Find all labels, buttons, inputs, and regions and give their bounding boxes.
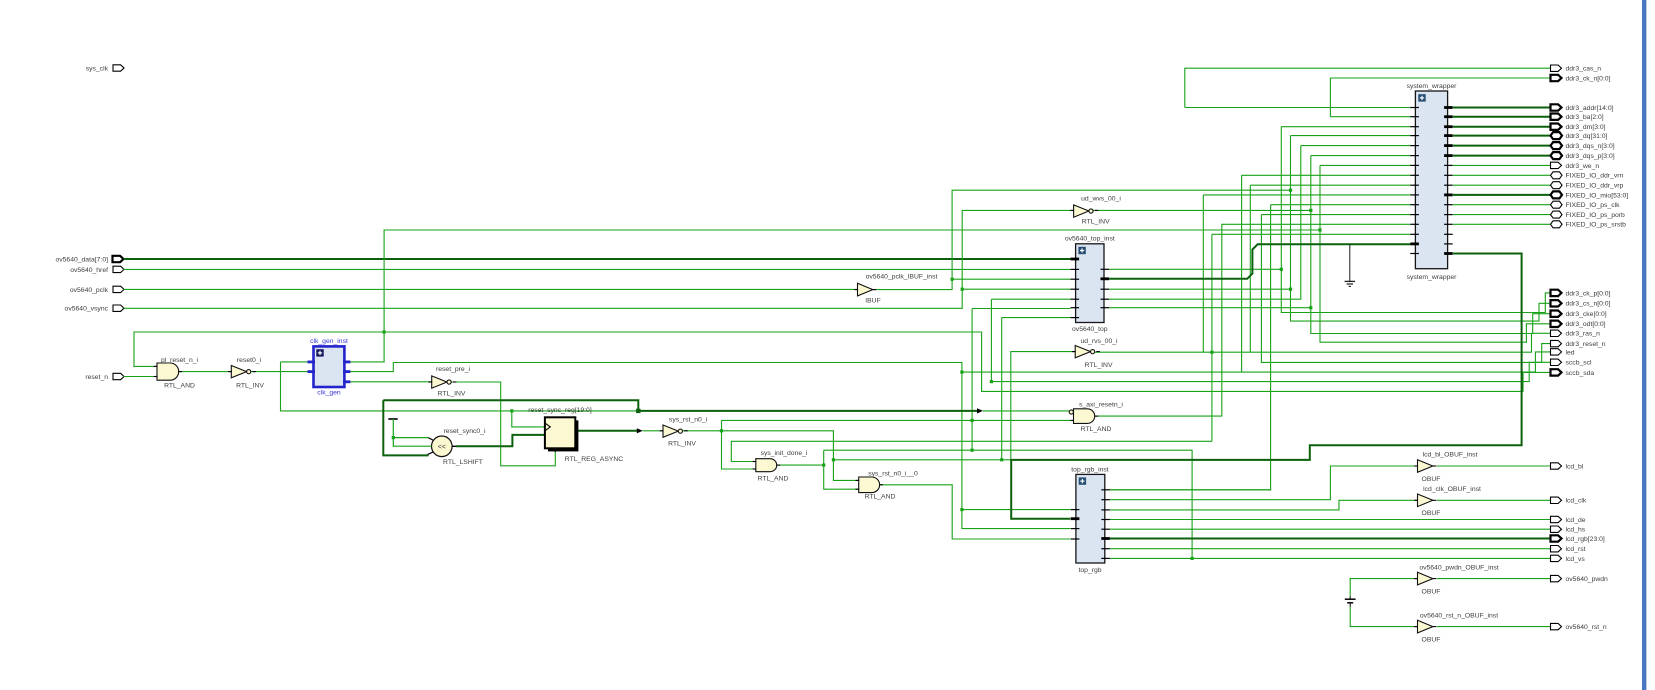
wire top_rgb lcd_bl to OBUF <box>1110 466 1418 500</box>
wire system_wrapper output y155.6 <box>1453 155 1551 157</box>
output port ddr3_dm[3:0] <box>1551 124 1606 132</box>
junction v1310 at ov out5 <box>1309 306 1312 309</box>
wire mesh net v1270 from top_rgb <box>1109 205 1410 490</box>
wire lcd_vs net <box>1110 557 1551 559</box>
junction reset_sync bus <box>636 409 640 413</box>
wire mesh net v1241 <box>1242 175 1411 372</box>
buffer lcd_clk_OBUF_inst <box>1414 486 1481 517</box>
svg-text:clk_gen_inst: clk_gen_inst <box>310 338 348 345</box>
wire reset_sync_reg Q bus <box>575 430 637 432</box>
wire ov5640_pclk_IBUF output net <box>876 190 1291 289</box>
wire sys_init_done_i output net <box>777 450 1192 558</box>
wire clk net from clk_gen <box>134 230 1551 391</box>
svg-text:RTL_AND: RTL_AND <box>758 476 789 483</box>
svg-text:lcd_hs: lcd_hs <box>1566 527 1586 534</box>
svg-text:ov5640_top: ov5640_top <box>1072 326 1108 333</box>
wire top_rgb out1 up v1270 <box>1110 489 1271 491</box>
junction pin5 net at h381 <box>990 380 993 383</box>
svg-text:ddr3_dm[3:0]: ddr3_dm[3:0] <box>1566 124 1606 131</box>
constant symbol for ov5640 pwdn/rst <box>1345 596 1356 607</box>
wire ddr3_ck_n net <box>1330 78 1550 117</box>
svg-text:system_wrapper: system_wrapper <box>1407 83 1458 90</box>
output port ddr3_ck_p[0:0] <box>1551 290 1611 298</box>
svg-text:lcd_vs: lcd_vs <box>1566 556 1586 563</box>
wire system_wrapper output y145.6 <box>1453 145 1551 147</box>
block top_rgb_inst <box>1071 466 1110 574</box>
wire mesh net v1300 <box>1109 146 1410 300</box>
svg-text:lcd_de: lcd_de <box>1566 517 1586 524</box>
svg-text:ov5640_rst_n: ov5640_rst_n <box>1566 624 1607 631</box>
arrow reg Q tap <box>637 428 643 433</box>
block clk_gen_inst <box>308 338 351 396</box>
svg-text:FIXED_IO_ddr_vrn: FIXED_IO_ddr_vrn <box>1566 173 1624 180</box>
block ov5640_top_inst <box>1065 236 1115 334</box>
svg-text:pl_reset_n_i: pl_reset_n_i <box>161 357 199 364</box>
svg-text:reset_pre_i: reset_pre_i <box>436 366 470 373</box>
svg-text:FIXED_IO_ps_clk: FIXED_IO_ps_clk <box>1566 202 1621 209</box>
svg-text:lcd_clk: lcd_clk <box>1566 498 1587 505</box>
wire top_rgb lcd_clk to OBUF <box>1110 500 1418 510</box>
svg-text:ud_rvs_00_i: ud_rvs_00_i <box>1080 338 1118 345</box>
output port ov5640_pwdn <box>1551 575 1609 583</box>
wire ov5640_top out3 to mesh <box>1109 288 1290 290</box>
svg-text:s_axi_resetn_i: s_axi_resetn_i <box>1079 401 1123 408</box>
junction clock to reg <box>510 409 513 412</box>
svg-text:sccb_scl: sccb_scl <box>1566 360 1593 367</box>
wire top_rgb pin feeds <box>962 372 1071 528</box>
arrow reset bus tap <box>977 408 983 413</box>
buffer lcd_bl_OBUF_inst <box>1414 452 1477 483</box>
svg-text:OBUF: OBUF <box>1422 637 1441 644</box>
inverter reset0_i <box>228 357 264 390</box>
and-gate sys_rst_n0_i__0 <box>856 470 918 500</box>
output port lcd_rgb[23:0] <box>1551 535 1605 543</box>
wire sys_rst_n0 tap to inverter <box>643 430 663 432</box>
wire s_axi_resetn_i output net <box>1095 224 1411 416</box>
wire mesh net v1203 <box>1203 195 1410 352</box>
junction vsync net <box>961 288 964 291</box>
wire reset_n to pl_reset_n_i <box>124 376 158 378</box>
buffer ov5640_pwdn_OBUF_inst <box>1414 565 1499 596</box>
wire ov5640_top out1 to mesh <box>1109 268 1281 270</box>
wire system_wrapper bus to top_rgb <box>1011 254 1521 519</box>
svg-text:ddr3_cs_n[0:0]: ddr3_cs_n[0:0] <box>1566 301 1611 308</box>
wire ov5640_top pin7 feed <box>1002 318 1071 460</box>
svg-text:lcd_clk_OBUF_inst: lcd_clk_OBUF_inst <box>1423 486 1481 493</box>
wire ddr3_cas_n net <box>1185 68 1551 107</box>
wire system_wrapper output y107.5 <box>1453 107 1551 109</box>
buffer ov5640_pclk_IBUF_inst <box>854 273 937 304</box>
svg-text:ddr3_ck_p[0:0]: ddr3_ck_p[0:0] <box>1566 290 1611 297</box>
wire lcd_rgb bus net <box>1110 538 1551 540</box>
svg-text:led: led <box>1566 349 1575 356</box>
svg-text:RTL_AND: RTL_AND <box>1081 426 1112 433</box>
output port lcd_de <box>1551 516 1586 524</box>
junction pin7 feed at h459 <box>1000 458 1003 461</box>
output port lcd_clk <box>1551 497 1587 505</box>
svg-text:ddr3_cke[0:0]: ddr3_cke[0:0] <box>1566 311 1607 318</box>
svg-text:ov5640_href: ov5640_href <box>70 267 108 274</box>
wire reset0_i to clk_gen <box>251 371 308 373</box>
junction top_rgb pin1 feed <box>960 371 963 512</box>
svg-text:reset_sync_reg[19:0]: reset_sync_reg[19:0] <box>528 407 592 414</box>
output port FIXED_IO_ps_clk <box>1551 201 1621 209</box>
wire ov5640_top output bus to system_wrapper <box>1109 244 1410 278</box>
wire clock distribution net <box>281 362 1071 427</box>
output port lcd_vs <box>1551 555 1586 563</box>
wire ov5640_top pin6 net <box>972 309 1070 451</box>
wire lcd_hs net <box>1110 528 1551 530</box>
wire system_wrapper output y185.2 <box>1453 184 1551 186</box>
junction v1290 at ov out3 <box>1289 288 1292 291</box>
wire system_wrapper output y126.7 <box>1453 126 1551 128</box>
wire mesh net v1250 <box>1250 185 1410 352</box>
svg-text:ov5640_pclk_IBUF_inst: ov5640_pclk_IBUF_inst <box>866 273 938 280</box>
output port lcd_bl <box>1551 463 1584 471</box>
register reset_sync_reg RTL_REG_ASYNC <box>528 407 623 463</box>
wire const to pwdn OBUF <box>1350 579 1417 597</box>
inverter ud_wvs_00_i <box>1070 196 1121 226</box>
block system_wrapper <box>1407 83 1458 281</box>
output port lcd_rst <box>1551 546 1586 554</box>
input port ov5640_data[7:0] <box>55 256 123 264</box>
output port FIXED_IO_ps_porb <box>1551 211 1626 219</box>
inverter sys_rst_n0_i <box>660 416 708 447</box>
svg-text:FIXED_IO_ddr_vrp: FIXED_IO_ddr_vrp <box>1566 183 1624 190</box>
svg-text:sys_rst_n0_i: sys_rst_n0_i <box>669 416 708 423</box>
wire system_wrapper output y135.6 <box>1453 135 1551 137</box>
svg-text:<<: << <box>438 444 446 451</box>
wire ov5640_rst_n OBUF output <box>1437 626 1551 628</box>
wire reset_sync feedback bus <box>383 400 977 455</box>
svg-text:lcd_rst: lcd_rst <box>1566 546 1586 553</box>
junction pin6 net <box>971 449 974 452</box>
svg-text:ov5640_pwdn_OBUF_inst: ov5640_pwdn_OBUF_inst <box>1419 565 1498 572</box>
output port sccb_sda <box>1551 369 1595 377</box>
svg-text:ov5640_data[7:0]: ov5640_data[7:0] <box>55 257 108 264</box>
wire ov5640_href to ov5640_top <box>124 268 1071 270</box>
svg-text:OBUF: OBUF <box>1422 510 1441 517</box>
svg-text:ddr3_dqs_p[3:0]: ddr3_dqs_p[3:0] <box>1566 153 1615 160</box>
output port ddr3_dqs_p[3:0] <box>1551 152 1615 160</box>
svg-text:RTL_REG_ASYNC: RTL_REG_ASYNC <box>565 456 624 463</box>
wire sys_rst_n0_i__0 output to top_rgb <box>880 485 1071 539</box>
and-gate sys_init_done_i <box>753 450 808 483</box>
svg-text:RTL_LSHIFT: RTL_LSHIFT <box>443 459 483 466</box>
svg-text:OBUF: OBUF <box>1422 589 1441 596</box>
input port reset_n <box>85 373 124 381</box>
wire const to rst_n OBUF <box>1350 607 1417 627</box>
svg-text:RTL_AND: RTL_AND <box>164 383 195 390</box>
svg-text:lcd_bl_OBUF_inst: lcd_bl_OBUF_inst <box>1423 452 1478 459</box>
svg-text:RTL_AND: RTL_AND <box>865 493 896 500</box>
wire system_wrapper output y214.6 <box>1453 214 1551 216</box>
svg-text:ddr3_dq[31:0]: ddr3_dq[31:0] <box>1566 133 1608 140</box>
svg-text:ddr3_odt[0:0]: ddr3_odt[0:0] <box>1566 321 1606 328</box>
svg-text:sys_rst_n0_i__0: sys_rst_n0_i__0 <box>868 470 918 477</box>
output port FIXED_IO_ddr_vrn <box>1551 172 1624 180</box>
output port ddr3_reset_n <box>1551 340 1606 348</box>
wire lcd_clk OBUF output <box>1437 499 1551 501</box>
input port ov5640_pclk <box>70 286 124 294</box>
svg-text:ddr3_we_n: ddr3_we_n <box>1566 163 1600 170</box>
svg-text:IBUF: IBUF <box>865 297 880 304</box>
and-gate pl_reset_n_i <box>154 357 199 390</box>
scrollbar blue bar at right edge <box>1642 0 1646 690</box>
input port ov5640_href <box>70 266 124 274</box>
svg-text:sys_init_done_i: sys_init_done_i <box>761 450 808 457</box>
wire reset_pre_i output to reg reset <box>451 382 555 466</box>
output port ddr3_cas_n <box>1551 65 1602 73</box>
output port ddr3_cke[0:0] <box>1551 311 1607 319</box>
output port ddr3_ras_n <box>1551 330 1601 338</box>
svg-text:ddr3_ck_n[0:0]: ddr3_ck_n[0:0] <box>1566 75 1611 82</box>
svg-text:ov5640_pwdn: ov5640_pwdn <box>1566 576 1609 583</box>
wire reset_sync0_i output bus <box>456 435 545 446</box>
svg-text:system_wrapper: system_wrapper <box>1407 274 1458 281</box>
svg-text:reset_sync0_i: reset_sync0_i <box>444 428 486 435</box>
and-gate s_axi_resetn_i <box>1069 401 1123 433</box>
ground symbol at system_wrapper <box>1345 245 1355 287</box>
output port led <box>1551 349 1575 357</box>
wire mesh net v1320 to ddr3_odt <box>1320 165 1551 342</box>
wire net to ud_rvs input <box>833 352 1075 460</box>
junction ud_wvs output at v1310 <box>1309 209 1312 212</box>
inverter ud_rvs_00_i <box>1072 338 1118 369</box>
svg-text:FIXED_IO_ps_srstb: FIXED_IO_ps_srstb <box>1566 222 1627 229</box>
wire ov5640_data bus to ov5640_top <box>124 258 1071 260</box>
input port ov5640_vsync <box>65 305 124 313</box>
wire mesh net v1281 to ddr3_ck_p <box>1281 127 1550 313</box>
output port lcd_hs <box>1551 526 1586 534</box>
wire mesh net v1310 to ddr3_cke <box>1311 156 1551 334</box>
wire lcd_de net <box>1110 519 1551 521</box>
wire clk_gen out2 jog net to led <box>349 352 1550 372</box>
svg-text:ddr3_reset_n: ddr3_reset_n <box>1566 341 1606 348</box>
svg-text:FIXED_IO_mio[53:0]: FIXED_IO_mio[53:0] <box>1566 192 1629 199</box>
wire clk_gen to reset_pre_i <box>349 381 431 383</box>
wire sw pin14 net <box>1212 234 1411 441</box>
output port ddr3_dqs_n[3:0] <box>1551 142 1615 150</box>
svg-text:OBUF: OBUF <box>1422 476 1441 483</box>
wire system_wrapper output y116.7 <box>1453 116 1551 118</box>
svg-text:ddr3_addr[14:0]: ddr3_addr[14:0] <box>1566 105 1614 112</box>
svg-text:top_rgb_inst: top_rgb_inst <box>1071 466 1109 473</box>
output port ddr3_dq[31:0] <box>1551 132 1608 140</box>
constant tie-off T symbol <box>388 419 431 446</box>
wire mesh net v1261 to ddr3_reset_n <box>1261 215 1550 363</box>
svg-text:ov5640_rst_n_OBUF_inst: ov5640_rst_n_OBUF_inst <box>1420 613 1498 620</box>
svg-text:RTL_INV: RTL_INV <box>668 441 696 448</box>
wire lcd_bl OBUF output <box>1437 465 1551 467</box>
inverter reset_pre_i <box>428 366 470 397</box>
input port sys_clk <box>86 65 124 73</box>
svg-text:ud_wvs_00_i: ud_wvs_00_i <box>1081 196 1121 203</box>
junction v1281 at ov out1 <box>1280 268 1283 271</box>
svg-text:RTL_INV: RTL_INV <box>1082 218 1110 225</box>
output port FIXED_IO_mio[53:0] <box>1551 191 1629 199</box>
svg-text:RTL_INV: RTL_INV <box>1085 362 1113 369</box>
output port ddr3_cs_n[0:0] <box>1551 300 1611 308</box>
svg-text:lcd_rgb[23:0]: lcd_rgb[23:0] <box>1566 536 1605 543</box>
wire ov5640_pwdn OBUF output <box>1437 578 1551 580</box>
wire system_wrapper output y194.9 <box>1453 194 1551 196</box>
output port ddr3_odt[0:0] <box>1551 321 1606 329</box>
wire mesh net v1290 to ddr3_cs_n <box>1291 136 1551 322</box>
wire ov5640_top pin5 net to sccb_scl <box>991 299 1550 381</box>
lshift reset_sync0_i <box>428 428 486 466</box>
svg-text:ddr3_ba[2:0]: ddr3_ba[2:0] <box>1566 114 1604 121</box>
svg-text:ddr3_cas_n: ddr3_cas_n <box>1566 66 1602 73</box>
svg-text:reset0_i: reset0_i <box>237 357 262 364</box>
svg-text:FIXED_IO_ps_porb: FIXED_IO_ps_porb <box>1566 212 1626 219</box>
wire ov5640_vsync net <box>124 210 1074 308</box>
junction sys_rst_n0_i out <box>720 419 974 462</box>
svg-text:ddr3_ras_n: ddr3_ras_n <box>1566 331 1601 338</box>
svg-text:ov5640_pclk: ov5640_pclk <box>70 287 109 294</box>
svg-text:RTL_INV: RTL_INV <box>438 391 466 398</box>
junction clk net <box>383 228 1322 333</box>
svg-text:lcd_bl: lcd_bl <box>1566 463 1584 470</box>
junction sys_init output <box>822 464 1194 561</box>
junction pclk net <box>951 189 1293 281</box>
output port ddr3_ba[2:0] <box>1551 114 1604 122</box>
wire ud_wvs_00_i output <box>1093 209 1311 211</box>
wire system_wrapper output y204.7 <box>1453 204 1551 206</box>
output port ddr3_we_n <box>1551 162 1600 170</box>
wire system_wrapper output y165.4 <box>1453 164 1551 166</box>
wire pl_reset_n_i to reset0_i <box>179 371 232 373</box>
wire sys_init_done in1 net <box>731 441 1212 461</box>
wire ov5640_top out5 to mesh <box>1109 307 1311 309</box>
wire system_wrapper output y224.3 <box>1453 223 1551 225</box>
output port FIXED_IO_ps_srstb <box>1551 221 1627 229</box>
svg-text:ov5640_top_inst: ov5640_top_inst <box>1065 236 1115 243</box>
output port ov5640_rst_n <box>1551 623 1607 631</box>
output port ddr3_ck_n[0:0] <box>1551 75 1611 83</box>
buffer ov5640_rst_n_OBUF_inst <box>1414 613 1498 644</box>
output port ddr3_addr[14:0] <box>1551 104 1614 112</box>
svg-text:top_rgb: top_rgb <box>1078 567 1101 574</box>
svg-text:sys_clk: sys_clk <box>86 66 109 73</box>
wire lcd_rst net <box>1110 548 1551 550</box>
svg-text:clk_gen: clk_gen <box>317 390 341 397</box>
wire ud_rvs_00_i output to ddr3_ras_n <box>1095 333 1551 352</box>
svg-text:sccb_sda: sccb_sda <box>1566 370 1595 377</box>
svg-text:reset_n: reset_n <box>85 374 108 381</box>
svg-text:ov5640_vsync: ov5640_vsync <box>65 306 109 313</box>
svg-text:ddr3_dqs_n[3:0]: ddr3_dqs_n[3:0] <box>1566 143 1615 150</box>
junction ud_rvs out at v1211 <box>1210 351 1213 354</box>
wire sys_rst_n0_i output net <box>682 420 1070 480</box>
wire ov5640_pclk to IBUF <box>124 288 858 290</box>
output port sccb_scl <box>1551 359 1593 367</box>
wire system_wrapper output y175.3 <box>1453 174 1551 176</box>
svg-text:RTL_INV: RTL_INV <box>236 383 264 390</box>
output port FIXED_IO_ddr_vrp <box>1551 182 1624 190</box>
